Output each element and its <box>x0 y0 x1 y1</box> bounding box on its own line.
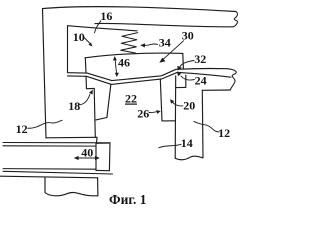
arrowhead 46 up <box>113 56 117 60</box>
svg-text:30: 30 <box>182 28 194 42</box>
right leg foot horizontal <box>162 120 175 122</box>
leaders and arrows <box>28 21 219 158</box>
reference numerals <box>16 9 231 159</box>
arrowhead 34 <box>140 43 145 47</box>
svg-text:16: 16 <box>100 9 112 23</box>
center box right edge <box>108 143 111 171</box>
left leg bottom edge <box>96 118 107 120</box>
leader 18 <box>79 95 90 105</box>
svg-text:18: 18 <box>68 99 80 113</box>
arrow 30 <box>162 41 184 61</box>
leader 16 <box>95 21 101 33</box>
cavity top edge <box>68 26 138 31</box>
bottom tab wavy break <box>45 193 98 196</box>
arrowhead 18 <box>89 90 93 95</box>
arrowhead 20 <box>170 99 174 104</box>
center box bottom <box>96 169 109 171</box>
svg-text:12: 12 <box>16 122 28 136</box>
right notch floor <box>176 86 186 88</box>
left leg left edge <box>94 89 95 138</box>
plate 30 top edge <box>85 53 183 58</box>
housing 16 outer top edge <box>43 7 237 12</box>
svg-text:26: 26 <box>137 107 149 121</box>
floor line <box>46 136 97 139</box>
right notch right edge <box>185 75 187 87</box>
arrowhead 30 <box>159 58 165 63</box>
bottom tab right edge <box>97 178 99 196</box>
leader 12 right <box>194 122 219 132</box>
svg-text:32: 32 <box>194 52 206 66</box>
plate 30 right edge <box>182 53 185 68</box>
center box left edge <box>95 143 97 170</box>
rail lower top line <box>3 168 96 171</box>
leader 26 <box>149 111 157 114</box>
svg-text:Фиг. 1: Фиг. 1 <box>109 192 147 207</box>
arrowhead 40 left <box>74 156 79 160</box>
svg-text:12: 12 <box>218 126 230 140</box>
diaphragm 22 upper line <box>68 69 228 81</box>
arrowhead 32 <box>177 66 181 71</box>
leg 18 notch floor <box>87 88 95 90</box>
svg-text:20: 20 <box>183 99 195 113</box>
arrow 10 <box>84 37 90 43</box>
right wall right edge <box>201 90 204 158</box>
right leg inner long vertical <box>174 76 177 158</box>
cavity left edge <box>67 26 69 73</box>
leader 32 <box>180 61 194 68</box>
leader 14 <box>159 144 181 148</box>
floor step down <box>96 137 99 143</box>
right wall top step <box>202 89 230 91</box>
arrowhead 40 right <box>95 156 100 160</box>
leader 24 <box>181 76 194 80</box>
leg 18 notch left edge <box>85 76 88 88</box>
housing 16 band bottom edge <box>95 23 233 26</box>
arrowhead 24 <box>177 72 181 77</box>
bottom tab left edge <box>44 178 46 193</box>
dimension 40 line <box>76 157 98 159</box>
arrowhead 26 <box>156 110 161 114</box>
break jag middle right <box>228 69 237 90</box>
svg-text:46: 46 <box>118 56 130 70</box>
svg-text:10: 10 <box>73 30 85 44</box>
leader 20 <box>172 102 183 106</box>
svg-text:22: 22 <box>125 92 137 106</box>
rail upper top line <box>3 142 110 144</box>
diaphragm 22 lower line <box>68 72 231 84</box>
rail lower bottom line <box>3 171 113 174</box>
spring 34 <box>121 33 138 54</box>
leader 34 <box>144 44 158 46</box>
arrowhead 46 down <box>115 73 119 77</box>
right leg outer left edge <box>160 79 162 121</box>
leader 12 left <box>28 120 62 128</box>
arrowhead 10 <box>88 42 92 46</box>
left leg right edge <box>107 85 111 118</box>
right leg wavy break bottom <box>175 156 203 160</box>
dimension 46 line <box>115 59 117 76</box>
housing 16 left wall <box>43 9 47 138</box>
rail upper bottom line <box>3 145 96 147</box>
break jag top right <box>233 12 237 27</box>
svg-text:24: 24 <box>195 73 207 87</box>
svg-text:40: 40 <box>81 145 93 159</box>
plate 30 left edge <box>84 58 87 73</box>
center box top <box>96 142 110 144</box>
svg-text:34: 34 <box>159 36 171 50</box>
lower shelf line <box>0 176 98 178</box>
svg-text:14: 14 <box>181 136 193 150</box>
